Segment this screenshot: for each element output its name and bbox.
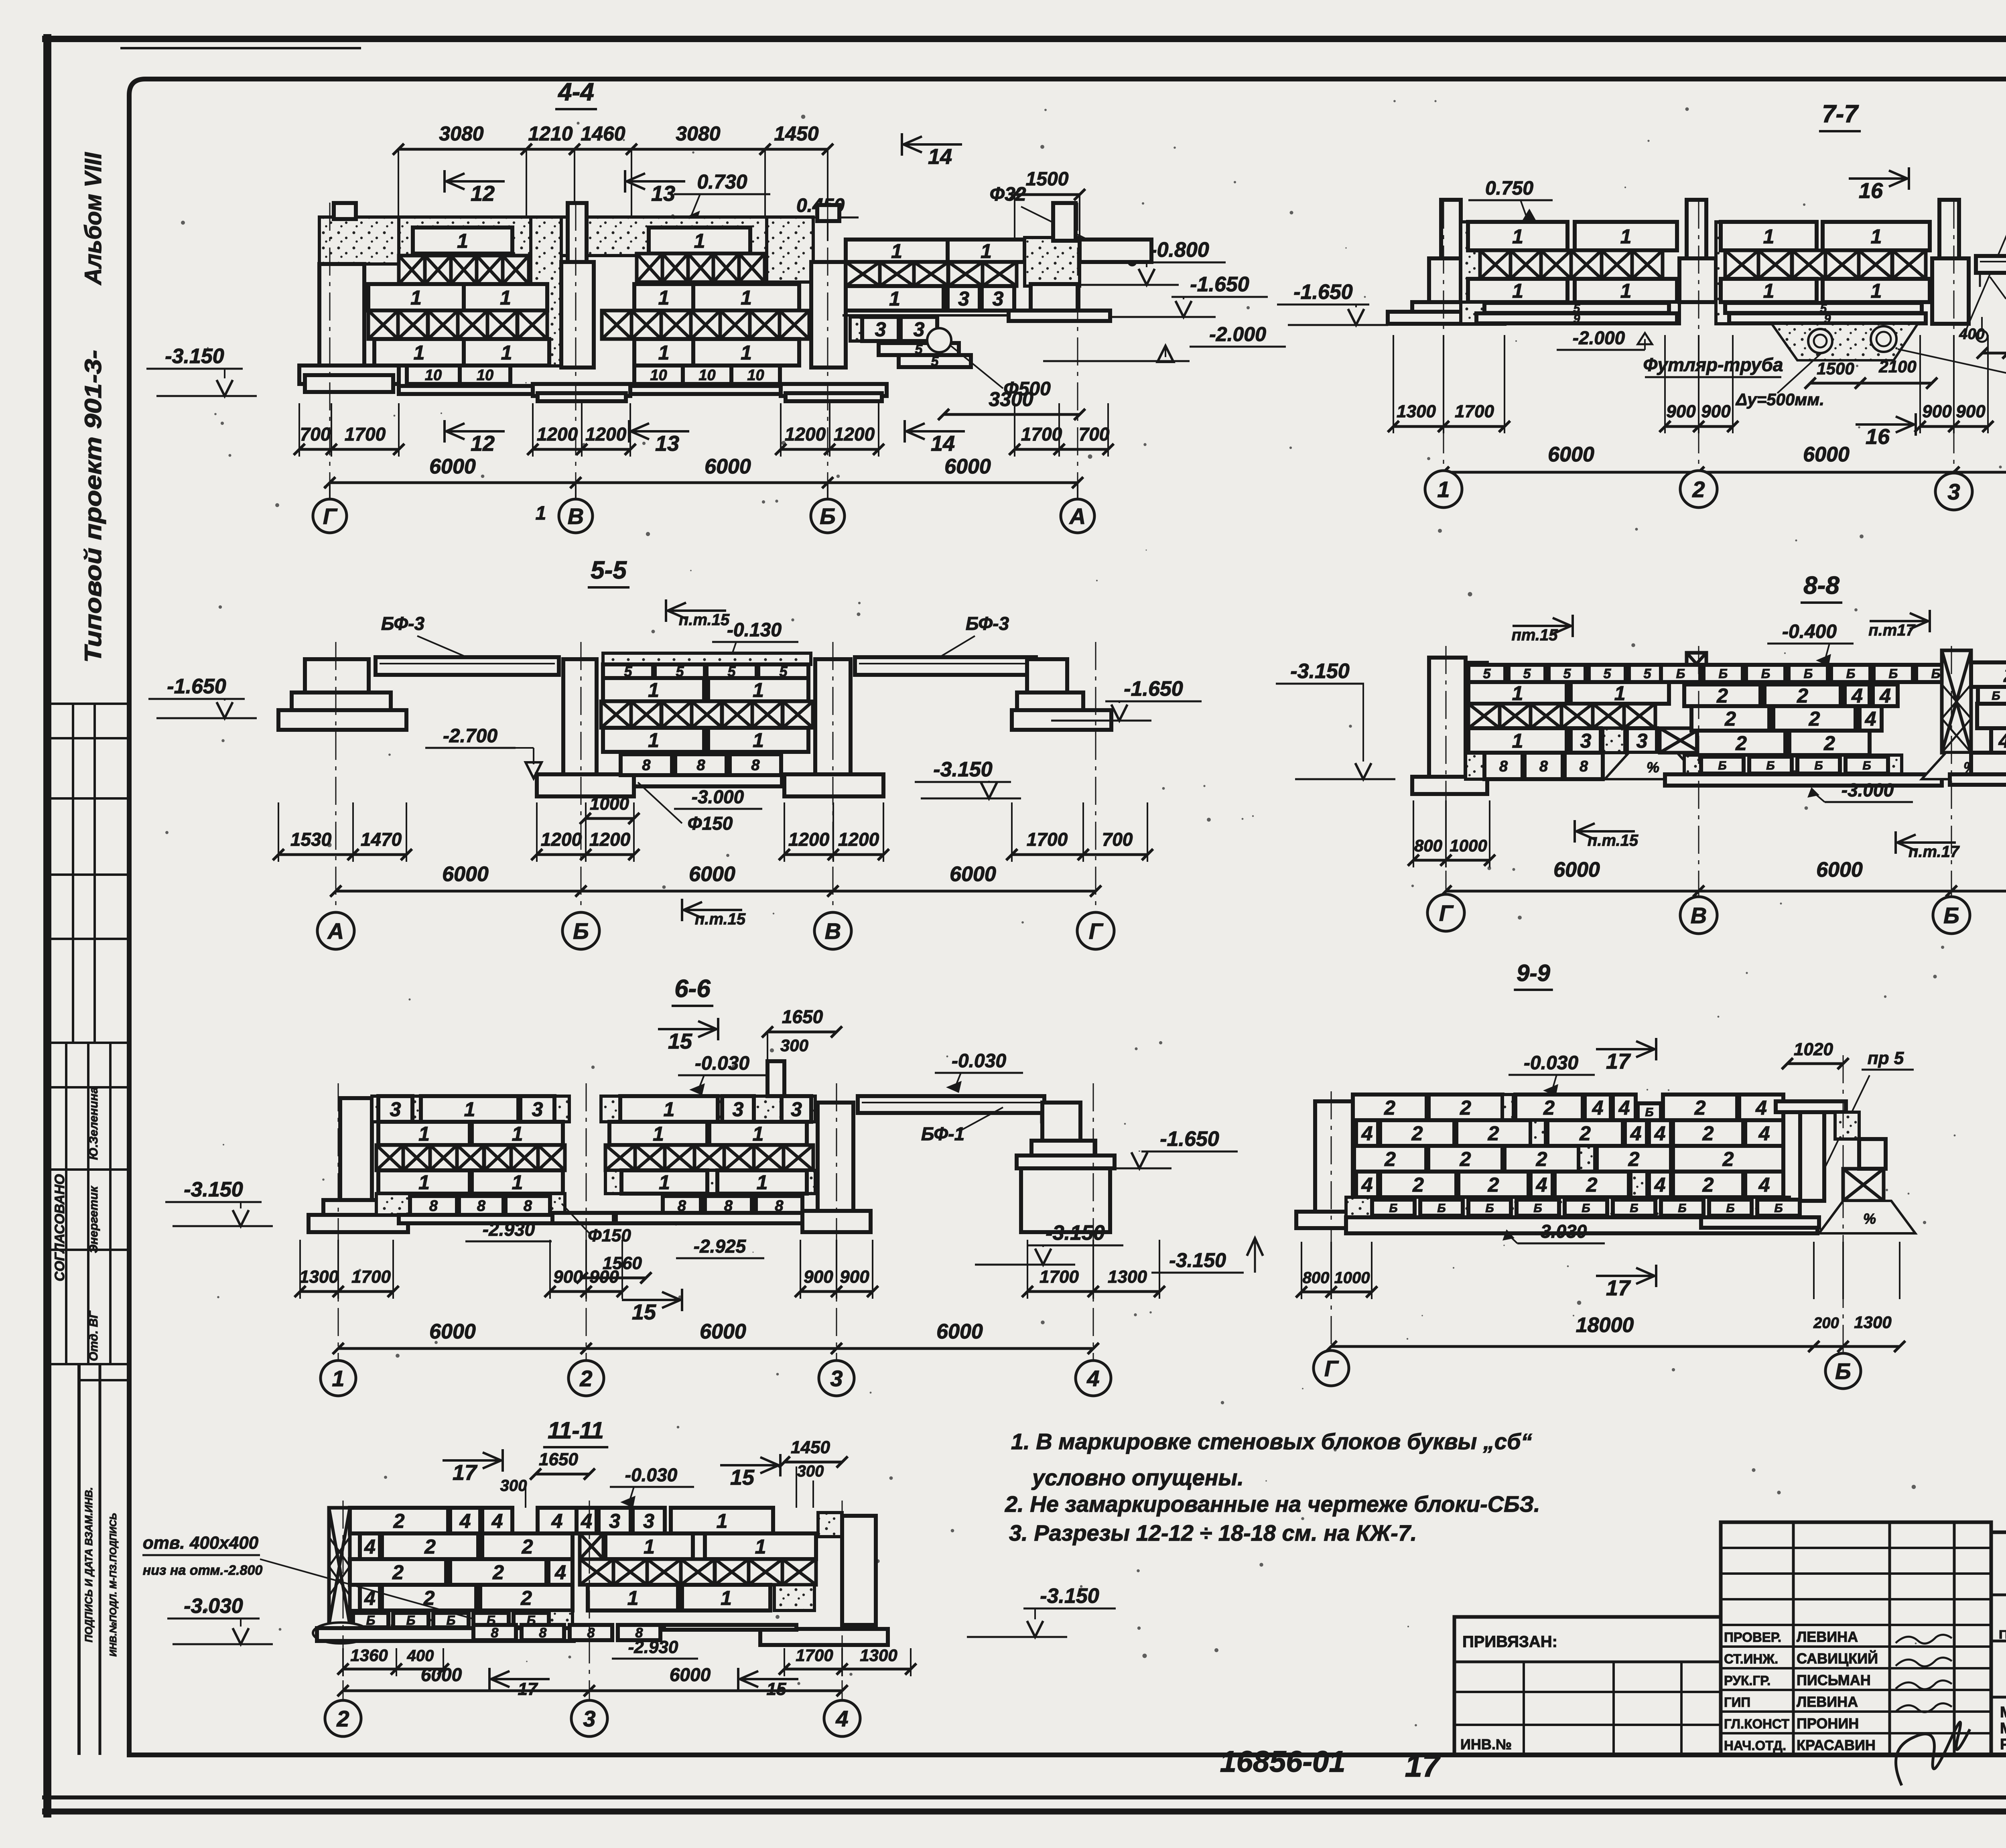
svg-text:1: 1 bbox=[981, 240, 992, 262]
section 8-8 wall middle part bbox=[1661, 665, 1700, 682]
svg-text:Δу=500мм.: Δу=500мм. bbox=[1735, 390, 1824, 409]
svg-text:-3.150: -3.150 bbox=[933, 758, 993, 781]
svg-text:2: 2 bbox=[1488, 1122, 1499, 1145]
svg-text:1: 1 bbox=[1763, 280, 1775, 302]
svg-text:16: 16 bbox=[1859, 179, 1883, 203]
svg-text:Б: Б bbox=[1718, 759, 1726, 772]
svg-text:15: 15 bbox=[668, 1030, 692, 1054]
svg-text:8: 8 bbox=[1499, 758, 1508, 775]
svg-text:1: 1 bbox=[1512, 280, 1523, 302]
svg-text:-1.650: -1.650 bbox=[167, 675, 226, 698]
section 6-6 left wall bay 1-2 bbox=[372, 1096, 569, 1122]
sidebar strip C (inventory) bbox=[77, 1364, 81, 1755]
svg-text:2: 2 bbox=[1716, 684, 1728, 707]
svg-text:1470: 1470 bbox=[361, 829, 402, 850]
svg-text:1: 1 bbox=[753, 1123, 764, 1145]
section 4-4 row 1|1 lower bbox=[374, 339, 464, 366]
svg-text:1: 1 bbox=[664, 1098, 675, 1121]
svg-text:САВИЦКИЙ: САВИЦКИЙ bbox=[1797, 1650, 1878, 1667]
section 6-6 pier axis3 bbox=[818, 1103, 853, 1211]
section 6-6 cut marker 15 top bbox=[658, 1028, 718, 1030]
svg-text:-0.030: -0.030 bbox=[695, 1053, 749, 1074]
svg-text:ПРОВЕР.: ПРОВЕР. bbox=[1724, 1630, 1781, 1645]
svg-text:5: 5 bbox=[1563, 666, 1572, 682]
svg-text:1200: 1200 bbox=[585, 424, 627, 445]
svg-text:Б: Б bbox=[1485, 1202, 1494, 1215]
svg-text:Б: Б bbox=[1931, 666, 1941, 681]
section 4-4 right pedestal A bbox=[1031, 284, 1078, 311]
svg-text:Г: Г bbox=[1324, 1356, 1339, 1381]
svg-text:12: 12 bbox=[471, 432, 495, 456]
svg-text:-2.930: -2.930 bbox=[628, 1637, 678, 1657]
section 11-11 right wall rows bbox=[577, 1508, 597, 1533]
svg-text:ПРИВЯЗАН:: ПРИВЯЗАН: bbox=[1462, 1633, 1557, 1651]
svg-text:900: 900 bbox=[1956, 402, 1986, 421]
section 8-8 top markers bbox=[1513, 625, 1573, 627]
svg-text:10: 10 bbox=[650, 367, 667, 384]
section 4-4 right lower bay bbox=[846, 240, 948, 262]
svg-text:6-6: 6-6 bbox=[674, 975, 711, 1003]
svg-text:НАЧ.ОТД.: НАЧ.ОТД. bbox=[1724, 1738, 1786, 1753]
svg-text:2: 2 bbox=[1536, 1148, 1547, 1170]
section 4-4 pipe phi500 bbox=[927, 328, 951, 352]
svg-text:КРАСАВИН: КРАСАВИН bbox=[1797, 1737, 1876, 1753]
svg-text:6000: 6000 bbox=[950, 863, 996, 886]
section 8-8 axis lines bbox=[1446, 646, 1447, 919]
svg-text:1: 1 bbox=[648, 679, 659, 701]
svg-text:8: 8 bbox=[587, 1625, 595, 1641]
svg-text:1: 1 bbox=[653, 1123, 664, 1145]
svg-text:ПИСЬМАН: ПИСЬМАН bbox=[1797, 1672, 1871, 1688]
svg-text:900: 900 bbox=[1922, 402, 1952, 421]
svg-text:6000: 6000 bbox=[421, 1664, 462, 1685]
svg-text:1650: 1650 bbox=[539, 1450, 578, 1469]
svg-text:6000: 6000 bbox=[1803, 443, 1850, 466]
svg-text:2: 2 bbox=[1722, 1148, 1734, 1170]
svg-text:Ф150: Ф150 bbox=[588, 1226, 631, 1245]
section 7-7 left pier axis1 bbox=[1441, 200, 1461, 260]
svg-text:2100: 2100 bbox=[1878, 357, 1916, 376]
svg-text:%: % bbox=[1863, 1210, 1876, 1227]
svg-text:900: 900 bbox=[1666, 402, 1696, 421]
svg-text:1: 1 bbox=[414, 341, 425, 364]
svg-text:Б: Б bbox=[1645, 1106, 1653, 1119]
svg-text:16: 16 bbox=[1866, 425, 1890, 449]
section 4-4 X-hatch middle row bbox=[368, 311, 398, 339]
svg-text:18000: 18000 bbox=[1576, 1314, 1634, 1337]
svg-text:1: 1 bbox=[1437, 477, 1450, 502]
svg-text:9-9: 9-9 bbox=[1517, 960, 1550, 986]
svg-text:1: 1 bbox=[741, 286, 752, 309]
section 4-4 dim row 2 (6000) bbox=[330, 481, 1078, 484]
svg-text:4: 4 bbox=[1758, 1122, 1770, 1145]
section 11-11 left wall rows bbox=[350, 1508, 448, 1533]
title block: signature table bbox=[1721, 1522, 1991, 1755]
svg-text:1700: 1700 bbox=[1455, 402, 1494, 421]
svg-text:-1.650: -1.650 bbox=[1190, 273, 1249, 296]
svg-text:1530: 1530 bbox=[290, 829, 332, 850]
svg-text:10: 10 bbox=[477, 367, 493, 384]
section 4-4 footing row 10 bbox=[407, 366, 460, 384]
svg-text:8-8: 8-8 bbox=[1803, 572, 1840, 599]
section 7-7 axis lines bbox=[1443, 201, 1444, 487]
svg-text:3: 3 bbox=[643, 1510, 654, 1532]
svg-text:А: А bbox=[327, 918, 344, 944]
section 9-9 left pier G bbox=[1315, 1101, 1353, 1214]
section 9-9 bottom dims bbox=[1301, 1291, 1372, 1294]
svg-text:800: 800 bbox=[1414, 836, 1442, 855]
svg-text:1: 1 bbox=[410, 286, 422, 309]
svg-text:3: 3 bbox=[958, 288, 969, 310]
svg-text:900: 900 bbox=[840, 1267, 869, 1287]
svg-text:8: 8 bbox=[429, 1198, 438, 1214]
svg-text:2: 2 bbox=[1702, 1174, 1714, 1196]
svg-text:2: 2 bbox=[393, 1510, 405, 1532]
svg-text:ИНВ.№: ИНВ.№ bbox=[1460, 1736, 1512, 1753]
section 4-4 X-hatch row under top band bbox=[399, 256, 425, 284]
svg-text:В: В bbox=[825, 918, 841, 944]
svg-text:1700: 1700 bbox=[345, 424, 386, 445]
svg-text:1: 1 bbox=[332, 1366, 344, 1391]
svg-text:4: 4 bbox=[1654, 1174, 1666, 1196]
svg-text:Б: Б bbox=[1889, 666, 1898, 681]
svg-text:-2.700: -2.700 bbox=[443, 725, 497, 747]
svg-text:11-11: 11-11 bbox=[548, 1417, 604, 1444]
svg-text:3: 3 bbox=[1636, 730, 1648, 752]
svg-text:2: 2 bbox=[522, 1535, 533, 1558]
svg-text:п.т.15: п.т.15 bbox=[695, 910, 746, 928]
svg-text:2: 2 bbox=[1412, 1174, 1424, 1196]
svg-text:1: 1 bbox=[464, 1098, 475, 1121]
section 11-11 right pier axis4 bbox=[818, 1513, 842, 1537]
sidebar table A bbox=[51, 703, 129, 705]
svg-text:300: 300 bbox=[797, 1462, 824, 1480]
svg-text:16856-01: 16856-01 bbox=[1220, 1745, 1346, 1778]
svg-text:-3.150: -3.150 bbox=[165, 345, 224, 368]
svg-text:Г: Г bbox=[1089, 918, 1104, 944]
svg-text:2: 2 bbox=[424, 1535, 436, 1558]
section 9-9 top markers bbox=[1596, 1048, 1656, 1050]
svg-text:3: 3 bbox=[791, 1098, 802, 1121]
section 11-11 top markers bbox=[443, 1459, 503, 1462]
svg-text:1: 1 bbox=[1620, 280, 1632, 302]
svg-text:Б: Б bbox=[1761, 666, 1770, 681]
svg-text:1: 1 bbox=[457, 230, 468, 252]
svg-text:МАРКИРОВОЧНАЯ СХЕМА ФУНДА-: МАРКИРОВОЧНАЯ СХЕМА ФУНДА- bbox=[2000, 1704, 2006, 1721]
svg-text:1000: 1000 bbox=[590, 794, 629, 814]
svg-text:700: 700 bbox=[1102, 829, 1133, 850]
svg-text:3: 3 bbox=[875, 318, 886, 341]
svg-text:2: 2 bbox=[1579, 1122, 1591, 1145]
svg-text:Б: Б bbox=[1814, 759, 1823, 772]
svg-text:2: 2 bbox=[1460, 1097, 1471, 1119]
svg-text:В: В bbox=[1691, 903, 1707, 928]
svg-text:2: 2 bbox=[1823, 732, 1835, 755]
svg-text:4: 4 bbox=[1879, 684, 1891, 707]
svg-text:1: 1 bbox=[755, 1535, 766, 1558]
section 5-5 pier V bbox=[815, 659, 851, 774]
svg-text:6000: 6000 bbox=[1548, 443, 1594, 466]
section 5-5 dim row 1 bbox=[278, 853, 406, 856]
svg-text:1360: 1360 bbox=[350, 1646, 388, 1665]
section 7-7 trench with pipes bbox=[1772, 324, 1918, 360]
svg-text:3: 3 bbox=[1580, 730, 1592, 752]
svg-text:14: 14 bbox=[931, 432, 955, 456]
svg-text:8: 8 bbox=[491, 1625, 499, 1641]
svg-text:17: 17 bbox=[1606, 1276, 1631, 1300]
section 5-5 cut marker bottom bbox=[682, 909, 742, 911]
svg-text:6000: 6000 bbox=[429, 455, 476, 478]
svg-text:-0.030: -0.030 bbox=[1524, 1052, 1578, 1074]
svg-text:1: 1 bbox=[1871, 280, 1882, 302]
svg-text:4: 4 bbox=[1755, 1097, 1767, 1119]
svg-text:В: В bbox=[568, 504, 584, 529]
section 7-7 wall bay 2-3 bbox=[1716, 222, 1737, 324]
svg-text:Б: Б bbox=[1676, 666, 1685, 681]
svg-text:900: 900 bbox=[589, 1267, 619, 1287]
svg-text:1700: 1700 bbox=[1021, 424, 1062, 445]
svg-text:6000: 6000 bbox=[1553, 858, 1600, 881]
svg-text:1300: 1300 bbox=[1108, 1267, 1147, 1287]
svg-text:1. В маркировке стеновых блоко: 1. В маркировке стеновых блоков буквы „с… bbox=[1011, 1429, 1532, 1454]
svg-text:-1.650: -1.650 bbox=[1160, 1127, 1219, 1151]
svg-text:15: 15 bbox=[767, 1679, 786, 1699]
svg-text:4: 4 bbox=[1654, 1122, 1666, 1145]
section 7-7 axis circles bbox=[1393, 335, 1394, 433]
section 7-7 pier axis3 bbox=[1939, 200, 1959, 260]
svg-text:4: 4 bbox=[1998, 730, 2006, 752]
svg-text:7-7: 7-7 bbox=[1822, 100, 1859, 128]
svg-text:Ф150: Ф150 bbox=[688, 813, 733, 834]
svg-text:10: 10 bbox=[698, 367, 715, 384]
section 11-11 left X column bbox=[329, 1508, 350, 1625]
svg-text:-3.150: -3.150 bbox=[1290, 660, 1350, 683]
svg-text:5: 5 bbox=[1483, 666, 1491, 682]
svg-text:5-5: 5-5 bbox=[591, 556, 627, 584]
svg-text:2: 2 bbox=[1460, 1148, 1471, 1170]
svg-text:1: 1 bbox=[1614, 682, 1626, 705]
svg-text:6000: 6000 bbox=[700, 1320, 746, 1343]
svg-text:3: 3 bbox=[830, 1366, 843, 1391]
section 6-6 dim 1560 bbox=[582, 1277, 646, 1279]
svg-text:пр 5: пр 5 bbox=[1868, 1048, 1904, 1068]
svg-text:-2.925: -2.925 bbox=[694, 1236, 747, 1257]
svg-text:400: 400 bbox=[1959, 326, 1984, 343]
svg-text:пт.15: пт.15 bbox=[1511, 626, 1558, 644]
svg-text:5: 5 bbox=[1604, 666, 1612, 682]
svg-text:4: 4 bbox=[1630, 1122, 1642, 1145]
svg-text:п.т.15: п.т.15 bbox=[1588, 832, 1639, 849]
svg-text:4: 4 bbox=[459, 1510, 471, 1532]
svg-text:1210: 1210 bbox=[528, 122, 573, 145]
section 4-4 row 1|1 upper bbox=[368, 284, 464, 311]
svg-text:1: 1 bbox=[753, 729, 764, 751]
svg-text:6000: 6000 bbox=[670, 1664, 711, 1685]
svg-text:Б: Б bbox=[1766, 759, 1775, 772]
svg-text:Б: Б bbox=[1862, 759, 1871, 772]
section 4-4 axis lines bbox=[329, 203, 331, 502]
svg-text:1700: 1700 bbox=[351, 1267, 391, 1287]
section 8-8 right stepped part bbox=[1971, 662, 2006, 687]
title block: privyazan table bbox=[1454, 1617, 1721, 1755]
svg-text:14: 14 bbox=[928, 145, 952, 169]
svg-text:2: 2 bbox=[1384, 1148, 1396, 1170]
svg-text:Б: Б bbox=[1678, 1202, 1686, 1215]
svg-text:Б: Б bbox=[1437, 1202, 1446, 1215]
svg-text:6000: 6000 bbox=[1816, 858, 1863, 881]
svg-text:3: 3 bbox=[609, 1510, 620, 1532]
sidebar table B (approvals) bbox=[51, 1086, 129, 1088]
section 11-11 bottom dims bbox=[343, 1668, 443, 1671]
svg-text:2: 2 bbox=[1694, 1097, 1706, 1119]
svg-text:Б: Б bbox=[1533, 1202, 1542, 1215]
svg-text:400: 400 bbox=[407, 1647, 434, 1665]
svg-text:3080: 3080 bbox=[439, 122, 483, 145]
svg-text:1: 1 bbox=[1512, 682, 1523, 705]
section 9-9 axis circles bbox=[1301, 1242, 1302, 1299]
svg-text:1: 1 bbox=[512, 1123, 523, 1145]
section 6-6 axis circles bbox=[299, 1240, 301, 1299]
svg-text:17: 17 bbox=[1405, 1748, 1441, 1783]
svg-text:13: 13 bbox=[651, 182, 675, 206]
svg-text:3: 3 bbox=[733, 1098, 744, 1121]
svg-text:ПРОНИН: ПРОНИН bbox=[1797, 1715, 1859, 1732]
svg-text:Б: Б bbox=[573, 918, 589, 944]
section 6-6 dim row 2 (6000) bbox=[338, 1347, 1093, 1350]
section 4-4 pier V bbox=[531, 217, 561, 366]
svg-text:1: 1 bbox=[1763, 225, 1775, 248]
svg-text:РУК.ГР.: РУК.ГР. bbox=[1724, 1673, 1770, 1688]
svg-text:Б: Б bbox=[1804, 666, 1813, 681]
section 7-7 pier axis2 bbox=[1687, 200, 1706, 260]
svg-text:1: 1 bbox=[1871, 225, 1882, 248]
svg-text:1450: 1450 bbox=[791, 1438, 830, 1457]
svg-text:1: 1 bbox=[757, 1171, 768, 1194]
svg-text:5: 5 bbox=[1523, 666, 1531, 682]
svg-text:-3.000: -3.000 bbox=[692, 786, 744, 807]
svg-text:2: 2 bbox=[1809, 708, 1820, 730]
svg-text:Б: Б bbox=[447, 1613, 456, 1628]
svg-text:700: 700 bbox=[300, 424, 331, 445]
svg-text:2: 2 bbox=[579, 1366, 592, 1391]
svg-text:1000: 1000 bbox=[1334, 1269, 1370, 1287]
svg-text:2: 2 bbox=[1586, 1174, 1598, 1196]
svg-text:1: 1 bbox=[891, 240, 902, 262]
section 4-4 dim row 1 bbox=[299, 448, 399, 451]
section 9-9 axis lines bbox=[1331, 1091, 1332, 1364]
svg-text:%: % bbox=[1647, 759, 1659, 776]
svg-text:Б: Б bbox=[1389, 1202, 1397, 1215]
svg-text:4: 4 bbox=[835, 1706, 848, 1731]
signatures squiggles bbox=[1896, 1635, 1952, 1643]
svg-text:БФ-1: БФ-1 bbox=[921, 1123, 964, 1144]
section 6-6 left pier axis1 bbox=[340, 1098, 372, 1208]
svg-text:3080: 3080 bbox=[676, 122, 720, 145]
svg-text:4: 4 bbox=[551, 1510, 563, 1532]
section 9-9 right cap and column bbox=[1776, 1101, 1846, 1112]
svg-text:8: 8 bbox=[477, 1198, 486, 1214]
svg-text:п.т.17: п.т.17 bbox=[1909, 843, 1960, 861]
svg-text:8: 8 bbox=[524, 1198, 532, 1214]
svg-text:1: 1 bbox=[658, 286, 670, 309]
svg-text:-0.030: -0.030 bbox=[625, 1464, 678, 1485]
svg-text:8: 8 bbox=[1580, 758, 1588, 775]
svg-text:2: 2 bbox=[1628, 1148, 1640, 1170]
svg-text:9: 9 bbox=[1574, 312, 1580, 325]
svg-text:ГИП: ГИП bbox=[1724, 1695, 1750, 1710]
svg-text:2: 2 bbox=[1735, 732, 1747, 755]
svg-text:Б: Б bbox=[1943, 903, 1959, 928]
section 4-4 cut markers bbox=[445, 180, 505, 183]
svg-text:2: 2 bbox=[492, 1561, 504, 1584]
section 4-4 base slabs bbox=[399, 386, 533, 394]
svg-text:2: 2 bbox=[1488, 1174, 1499, 1196]
svg-text:4: 4 bbox=[581, 1510, 592, 1532]
svg-text:-0.400: -0.400 bbox=[1782, 621, 1837, 642]
svg-text:0.730: 0.730 bbox=[697, 171, 747, 193]
svg-text:Альбом VIII: Альбом VIII bbox=[80, 152, 106, 286]
section 5-5 left pedestal A bbox=[305, 659, 369, 692]
section 7-7 wall bay 1-2 bbox=[1461, 222, 1484, 324]
svg-text:1: 1 bbox=[721, 1587, 732, 1609]
svg-text:-0.030: -0.030 bbox=[952, 1050, 1006, 1072]
svg-text:-3.030: -3.030 bbox=[1535, 1221, 1587, 1242]
svg-text:1: 1 bbox=[717, 1510, 728, 1532]
svg-text:300: 300 bbox=[500, 1477, 527, 1495]
section 9-9 wall rows bbox=[1353, 1095, 1427, 1120]
svg-text:Футляр-труба: Футляр-труба bbox=[1643, 354, 1783, 375]
svg-text:4: 4 bbox=[1361, 1174, 1373, 1196]
svg-text:МЕНТОВ И ФУНДАМЕНТНЫХ БАЛОК.: МЕНТОВ И ФУНДАМЕНТНЫХ БАЛОК. bbox=[2000, 1720, 2006, 1737]
svg-text:ПРОИЗВОДИТЕЛЬНОСТЬЮ 2ОТЫС.М3 С: ПРОИЗВОДИТЕЛЬНОСТЬЮ 2ОТЫС.М3 СУТКИ С КОН… bbox=[1999, 1628, 2006, 1641]
svg-text:6000: 6000 bbox=[429, 1320, 476, 1343]
svg-text:1300: 1300 bbox=[1854, 1313, 1891, 1332]
svg-text:Б: Б bbox=[1719, 666, 1728, 681]
svg-text:4: 4 bbox=[1592, 1097, 1604, 1119]
svg-text:4-4: 4-4 bbox=[557, 78, 594, 106]
section 6-6 axis2 slab bbox=[552, 1213, 614, 1223]
svg-text:1200: 1200 bbox=[788, 829, 830, 850]
section 11-11 axis lines bbox=[343, 1501, 344, 1717]
svg-text:-2.000: -2.000 bbox=[1209, 323, 1266, 345]
svg-text:1: 1 bbox=[418, 1171, 430, 1194]
svg-text:Б: Б bbox=[406, 1613, 416, 1628]
svg-text:1700: 1700 bbox=[796, 1646, 833, 1665]
svg-text:2: 2 bbox=[392, 1561, 404, 1584]
svg-text:8: 8 bbox=[751, 757, 760, 774]
svg-text:1: 1 bbox=[536, 503, 546, 524]
svg-text:17: 17 bbox=[1606, 1050, 1631, 1074]
svg-text:1: 1 bbox=[741, 341, 752, 364]
svg-text:1020: 1020 bbox=[1794, 1040, 1833, 1059]
svg-text:1: 1 bbox=[1512, 225, 1523, 248]
section 4-4 wall top concrete band bbox=[399, 217, 813, 256]
svg-text:4: 4 bbox=[554, 1561, 566, 1584]
svg-text:БФ-3: БФ-3 bbox=[966, 613, 1009, 634]
section 7-7 beam BF-2 bbox=[1976, 256, 2006, 273]
svg-text:1200: 1200 bbox=[537, 424, 578, 445]
svg-text:1200: 1200 bbox=[589, 829, 631, 850]
svg-text:-3.150: -3.150 bbox=[184, 1178, 243, 1201]
svg-text:5: 5 bbox=[1644, 666, 1652, 682]
svg-text:Б: Б bbox=[1582, 1202, 1590, 1215]
svg-text:17: 17 bbox=[518, 1679, 538, 1699]
section 6-6 right wall bay 2-3 bbox=[601, 1096, 815, 1122]
section 5-5 pier B bbox=[563, 659, 597, 774]
svg-text:Б: Б bbox=[1992, 689, 2000, 703]
svg-text:-1.650: -1.650 bbox=[1124, 677, 1183, 701]
svg-text:Б: Б bbox=[1835, 1359, 1851, 1384]
